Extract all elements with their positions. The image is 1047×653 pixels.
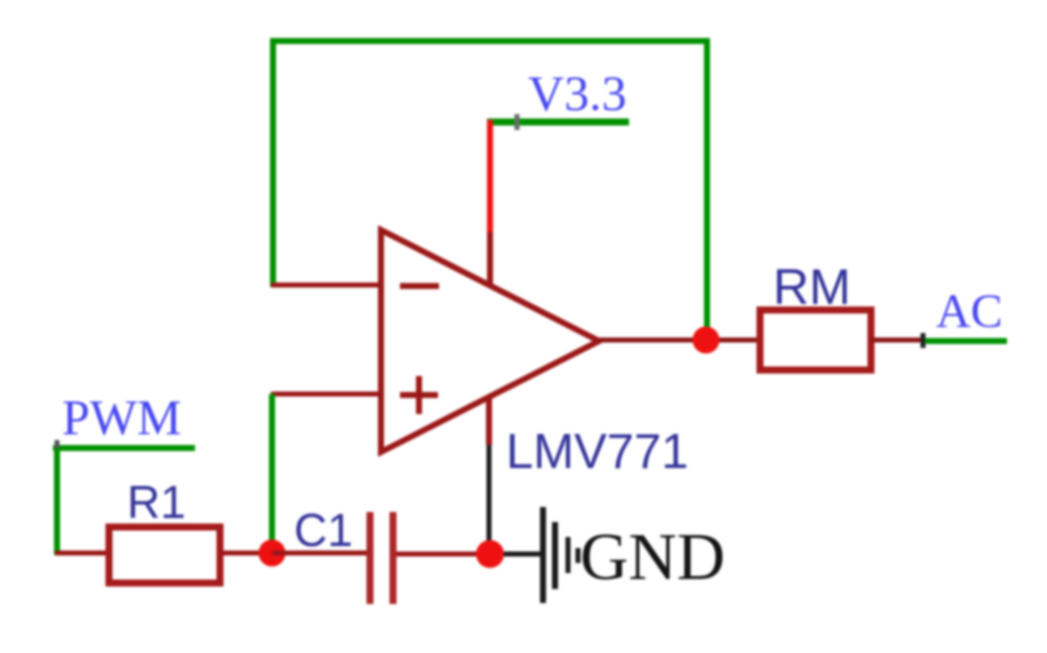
net label PWM	[62, 389, 181, 445]
wire PWM horizontal	[53, 445, 195, 451]
wire node A to C1	[272, 551, 368, 556]
pin V- of op-amp	[486, 398, 492, 445]
wire green vertical to node A	[269, 394, 275, 553]
wire inverting input	[271, 283, 381, 288]
wire node B vertical black	[487, 445, 492, 554]
label R1	[127, 476, 186, 528]
capacitor C1	[370, 512, 393, 604]
ground	[543, 507, 578, 603]
op-amp U1 LMV771	[381, 230, 599, 452]
wire V3.3 horizontal	[487, 119, 629, 126]
wire V3.3 vertical red	[487, 120, 493, 232]
net label AC	[936, 285, 1003, 338]
wire node B to ground	[490, 552, 541, 557]
pin V+ of op-amp	[487, 232, 493, 284]
wire C1 to node B	[396, 552, 489, 557]
svg-text:RM: RM	[773, 259, 851, 315]
label LMV771	[506, 425, 689, 479]
net label V3.3	[528, 65, 627, 121]
node C junction	[693, 327, 720, 354]
wire R1 to node A	[220, 551, 272, 556]
svg-text:GND: GND	[580, 520, 725, 594]
svg-text:PWM: PWM	[62, 389, 181, 445]
svg-text:AC: AC	[936, 285, 1003, 338]
node B junction	[476, 540, 504, 568]
wire feedback top horizontal	[270, 38, 710, 44]
wire op-amp output	[599, 338, 758, 343]
node A junction	[259, 540, 286, 567]
svg-text:R1: R1	[127, 476, 186, 528]
wire PWM vertical	[54, 448, 60, 555]
svg-text:V3.3: V3.3	[528, 65, 627, 121]
label RM	[773, 259, 851, 315]
svg-text:LMV771: LMV771	[506, 425, 689, 479]
wire PWM to R1	[55, 551, 108, 556]
wire non-inverting input	[271, 392, 381, 397]
label GND	[580, 520, 725, 594]
resistor RM	[760, 310, 871, 370]
wire AC green	[925, 338, 1007, 344]
pin marker V3.3	[515, 114, 520, 130]
label C1	[294, 504, 353, 556]
wire feedback right vertical	[704, 38, 710, 336]
resistor R1	[109, 527, 220, 583]
wire RM to AC	[871, 338, 925, 343]
svg-text:C1: C1	[294, 504, 353, 556]
pin marker PWM	[55, 440, 60, 457]
wire feedback left vertical	[270, 38, 276, 287]
pin marker AC	[921, 333, 926, 348]
